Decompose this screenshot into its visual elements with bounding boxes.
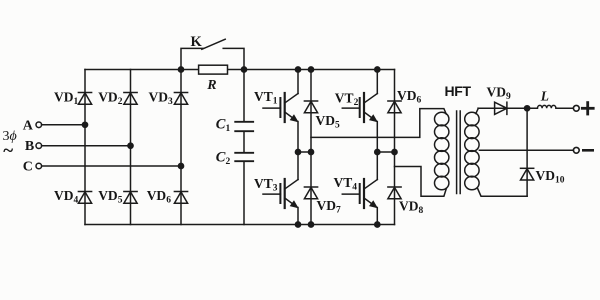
svg-text:VD5: VD5 — [316, 113, 341, 131]
wire: VT3 collector/emitter leg — [297, 152, 299, 225]
diode VD6 (bridge) — [388, 101, 401, 113]
wire: left bridge midpoint link — [298, 151, 311, 153]
node: top bus VD5 — [308, 67, 313, 72]
svg-text:VD3: VD3 — [149, 89, 174, 107]
wire: phase C — [42, 165, 181, 167]
svg-text:VD6: VD6 — [147, 188, 172, 206]
node: top bus VT2 — [375, 67, 380, 72]
diode VD8 (bridge) — [388, 187, 401, 199]
svg-text:VD6: VD6 — [397, 88, 422, 106]
svg-text:K: K — [191, 34, 203, 50]
wire: secondary top lead — [476, 108, 537, 113]
wire: capacitor branch — [243, 70, 245, 225]
diode VD4 — [78, 192, 91, 204]
node: K left junction — [178, 67, 183, 72]
wire: VT1 collector/emitter leg — [297, 70, 299, 153]
svg-text:VT1: VT1 — [254, 89, 278, 107]
transformer HFT secondary winding — [465, 112, 479, 190]
svg-text:C1: C1 — [216, 116, 231, 134]
node: right midpoint VD — [392, 149, 397, 154]
node: bottom bus VT4 — [375, 222, 380, 227]
diode VD9 — [495, 102, 507, 114]
node: phase A junction — [82, 122, 87, 127]
wire: primary top lead — [311, 109, 446, 138]
diode VD2 — [124, 93, 137, 105]
inductor L — [538, 105, 556, 108]
transistor VT3 — [263, 179, 298, 208]
capacitor C1 — [235, 122, 253, 131]
node: phase B junction — [128, 143, 133, 148]
svg-text:VT3: VT3 — [254, 176, 278, 194]
wire: top DC bus — [85, 69, 395, 71]
svg-text:VT2: VT2 — [335, 91, 359, 109]
output minus sign — [583, 149, 592, 152]
diode VD3 — [174, 93, 187, 105]
diode VD10 — [521, 168, 534, 180]
svg-text:VD10: VD10 — [536, 168, 565, 186]
transistor VT2 — [342, 93, 377, 122]
wire: phase B — [42, 145, 131, 147]
wire: VD6 bridge leg — [394, 70, 396, 153]
svg-text:VD9: VD9 — [487, 84, 512, 102]
svg-text:VD2: VD2 — [98, 89, 123, 107]
wire: VD5 bridge leg — [310, 70, 312, 153]
wire: phase A — [42, 124, 85, 126]
wire: rectifier leg 1 — [84, 70, 86, 225]
wire: output plus lead — [556, 107, 573, 109]
transformer HFT primary winding — [435, 112, 449, 190]
wire: secondary bottom lead — [478, 188, 528, 196]
terminal C — [36, 163, 42, 169]
node: K right / capacitor branch junction — [241, 67, 246, 72]
capacitor C2 — [235, 153, 253, 161]
transformer HFT core — [457, 111, 461, 194]
wire: bottom DC bus — [85, 224, 395, 226]
wire: VD8 bridge leg — [394, 152, 396, 225]
node: left midpoint VT — [295, 149, 300, 154]
transistor VT1 — [263, 93, 298, 122]
svg-text:VD7: VD7 — [317, 198, 342, 216]
terminal plus — [573, 105, 579, 111]
terminal B — [36, 143, 42, 149]
diode VD1 — [78, 93, 91, 105]
svg-text:VD4: VD4 — [54, 188, 79, 206]
node: bottom bus VT3 — [295, 222, 300, 227]
output plus sign — [582, 103, 593, 114]
wire: rectifier leg 3 — [180, 70, 182, 225]
terminal minus — [573, 147, 579, 153]
node: top bus VT1 — [295, 67, 300, 72]
node: bottom bus VD7 — [308, 222, 313, 227]
svg-text:VT4: VT4 — [334, 175, 358, 193]
node: phase C junction — [178, 163, 183, 168]
diode VD5 (bridge) — [304, 101, 317, 113]
transistor VT4 — [342, 179, 377, 208]
svg-text:VD5: VD5 — [98, 188, 123, 206]
wire: VD7 bridge leg — [310, 152, 312, 225]
svg-text:HFT: HFT — [445, 83, 472, 99]
node: left midpoint VD — [308, 149, 313, 154]
diode VD7 (bridge) — [304, 187, 317, 199]
switch K — [181, 39, 244, 69]
svg-text:VD1: VD1 — [54, 89, 79, 107]
svg-text:VD8: VD8 — [399, 199, 424, 217]
terminal A — [36, 122, 42, 128]
svg-text:~: ~ — [3, 141, 13, 162]
wire: right bridge midpoint link — [377, 151, 394, 153]
diode VD5 (rectifier) — [124, 192, 137, 204]
wire: secondary centre tap — [479, 149, 573, 151]
wire: primary bottom lead — [395, 167, 447, 197]
wire: VD10 branch — [526, 108, 528, 196]
svg-text:C: C — [23, 160, 33, 175]
resistor R — [199, 65, 228, 74]
wire: rectifier leg 2 — [130, 70, 132, 225]
diode VD6 (rectifier) — [174, 192, 187, 204]
svg-text:L: L — [540, 88, 549, 103]
node: rectified output junction — [525, 106, 530, 111]
node: right midpoint VT — [375, 149, 380, 154]
wire: VT2 collector/emitter leg — [376, 70, 378, 153]
svg-text:C2: C2 — [216, 149, 231, 167]
svg-text:A: A — [23, 118, 34, 133]
wire: VT4 collector/emitter leg — [376, 152, 378, 225]
svg-text:B: B — [25, 139, 34, 154]
svg-text:R: R — [206, 78, 216, 93]
